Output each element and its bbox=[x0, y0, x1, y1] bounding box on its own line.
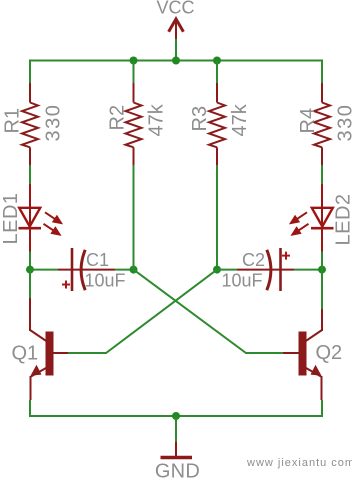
power symbol VCC bbox=[156, 0, 194, 39]
wire GND stem bbox=[175, 416, 177, 442]
wire R2 to node B bbox=[133, 165, 135, 270]
svg-text:R1: R1 bbox=[2, 108, 24, 134]
LED2 emission arrows bbox=[291, 212, 309, 234]
ground symbol GND bbox=[155, 442, 200, 480]
node B junction dot (R2/C1/cross wire) bbox=[130, 266, 138, 274]
svg-text:330: 330 bbox=[43, 104, 65, 142]
svg-text:47k: 47k bbox=[146, 103, 168, 136]
node A junction dot (LED1/C1/Q1 collector) bbox=[26, 266, 34, 274]
svg-text:VCC: VCC bbox=[156, 0, 194, 18]
wire VCC stem bbox=[175, 39, 177, 61]
resistor R3 bbox=[189, 83, 251, 165]
svg-text:R3: R3 bbox=[189, 106, 211, 132]
wire cross from node B to Q2 base bbox=[134, 270, 284, 353]
svg-text:www jiexiantu com: www jiexiantu com bbox=[246, 457, 352, 469]
svg-text:Q2: Q2 bbox=[316, 342, 343, 364]
Q2 emitter arrowhead bbox=[311, 365, 322, 376]
wire R4 to LED2 bbox=[321, 165, 323, 184]
wire C2 to node D bbox=[294, 269, 322, 271]
resistor R1 bbox=[2, 83, 65, 165]
junction dot bottom rail at GND bbox=[172, 412, 180, 420]
transistor Q1 bbox=[12, 298, 69, 400]
wire top rail to R3 bbox=[216, 61, 218, 84]
wire bottom rail bbox=[30, 415, 322, 417]
wire Q1 emitter to bottom rail bbox=[29, 400, 31, 417]
svg-text:10uF: 10uF bbox=[222, 271, 263, 291]
svg-text:R2: R2 bbox=[106, 105, 128, 131]
resistor R4 bbox=[297, 83, 352, 165]
svg-text:47k: 47k bbox=[229, 103, 251, 136]
wire LED2 to node D bbox=[321, 252, 323, 270]
plus sign C1 bbox=[62, 281, 70, 289]
svg-text:LED1: LED1 bbox=[0, 192, 22, 244]
LED LED1 bbox=[0, 184, 61, 252]
svg-text:10uF: 10uF bbox=[85, 271, 126, 291]
wire Q2 emitter to bottom rail bbox=[321, 400, 323, 417]
LED1 emission arrows bbox=[44, 212, 62, 234]
svg-text:C1: C1 bbox=[86, 250, 109, 270]
wire C1 to node B bbox=[115, 269, 134, 271]
wire node D down to Q2 collector bbox=[321, 270, 323, 309]
transistor Q2 bbox=[283, 309, 342, 400]
capacitor C2 bbox=[222, 248, 295, 291]
resistor R2 bbox=[106, 83, 167, 165]
capacitor C1 bbox=[58, 248, 126, 291]
junction dot top rail at VCC bbox=[172, 57, 180, 65]
svg-text:C2: C2 bbox=[242, 250, 265, 270]
wire node C to C2 bbox=[217, 269, 237, 271]
svg-text:Q1: Q1 bbox=[12, 343, 39, 365]
wire top rail to R1 bbox=[29, 60, 31, 84]
Q1 emitter arrowhead bbox=[31, 365, 42, 376]
wire top rail to R2 bbox=[133, 61, 135, 84]
LED LED2 bbox=[291, 184, 352, 252]
node D junction dot (LED2/C2/Q2 collector) bbox=[318, 266, 326, 274]
node C junction dot (R3/C2/cross wire) bbox=[213, 266, 221, 274]
wire top rail bbox=[30, 60, 322, 62]
svg-text:LED2: LED2 bbox=[333, 193, 352, 245]
wire cross from node C to Q1 base bbox=[68, 270, 217, 353]
wire top rail to R4 bbox=[321, 60, 323, 84]
svg-text:GND: GND bbox=[155, 461, 200, 480]
svg-text:R4: R4 bbox=[297, 108, 319, 134]
wire R1 to LED1 bbox=[29, 165, 31, 184]
wire R3 to node C bbox=[216, 165, 218, 270]
junction dot top rail at R3 bbox=[213, 57, 221, 65]
wire node A to C1 bbox=[30, 269, 58, 271]
wire node A down to Q1 collector bbox=[29, 270, 31, 298]
junction dot top rail at R2 bbox=[130, 57, 138, 65]
plus sign C2 bbox=[282, 252, 290, 260]
svg-text:330: 330 bbox=[335, 104, 352, 142]
wire LED1 to node A bbox=[29, 252, 31, 270]
